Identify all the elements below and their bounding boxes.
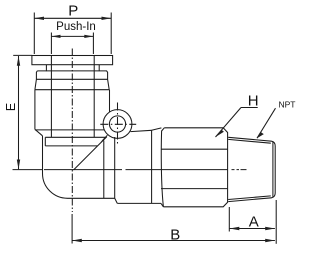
dimension A extension line right: [275, 200, 277, 244]
svg-text:Push-In: Push-In: [56, 21, 96, 33]
bottom edge (front): [68, 197, 115, 199]
dimension E arrow top: [17, 56, 20, 66]
corner silhouette edge rear: [114, 137, 116, 198]
svg-text:B: B: [170, 227, 180, 244]
dimension P arrow right: [102, 17, 112, 20]
H underline: [241, 107, 258, 109]
bore bottom left vertical: [44, 137, 46, 146]
lower body left edge: [42, 136, 44, 174]
corner facet left cap: [101, 140, 103, 143]
bottom-left fillet: [43, 174, 68, 199]
svg-text:NPT: NPT: [279, 99, 296, 109]
dimension B arrow right: [265, 239, 275, 242]
H leader arrow: [216, 130, 224, 137]
dimension E top extension line: [13, 54, 32, 56]
NPT thread bottom edge: [228, 198, 271, 202]
dimension P extension line right: [110, 13, 112, 55]
boss circle outer: [103, 110, 132, 139]
cartridge step line: [35, 129, 105, 131]
cap (top flange): [32, 56, 113, 65]
dimension B extension line left: [71, 214, 73, 244]
thread end chamfer line: [272, 142, 274, 197]
bore bottom line lower: [45, 145, 97, 147]
vertical centerline: [71, 49, 73, 213]
dimension E bottom extension line: [13, 169, 43, 171]
chamfer upper-left body: [35, 129, 43, 136]
NPT thread bottom minor line: [228, 196, 271, 200]
upper body top edge: [35, 89, 110, 91]
upper body right edge: [109, 90, 111, 113]
dimension Push-In arrow right: [84, 35, 93, 38]
NPT thread top edge: [228, 137, 271, 141]
horizontal centerline: [44, 169, 247, 171]
junction chamfer bottom: [161, 203, 163, 206]
svg-text:P: P: [68, 3, 78, 20]
release collet ring: [35, 71, 109, 90]
bore bottom line upper: [45, 136, 106, 138]
cap neck tick right: [98, 65, 100, 72]
bottom edge (rear): [117, 202, 161, 204]
horizontal cylinder top edge: [131, 130, 152, 131]
NPT thread top minor line: [228, 139, 271, 143]
thread end face outer: [272, 141, 276, 198]
H leader line: [216, 108, 242, 138]
bottom step: [115, 198, 118, 203]
hex face line lower: [161, 188, 228, 190]
hex face line upper: [161, 148, 228, 150]
hex junction face: [151, 130, 153, 203]
corner facet upper edge: [103, 135, 107, 140]
inner bore line left: [50, 56, 52, 138]
cap neck tick left: [45, 65, 47, 72]
NPT leader arrow: [257, 132, 264, 138]
svg-text:H: H: [248, 92, 259, 109]
dimension P arrow left: [34, 17, 44, 20]
NPT leader line: [257, 108, 276, 138]
dimension P line: [34, 17, 111, 19]
dimension A arrow left: [230, 227, 240, 230]
junction chamfer top: [152, 128, 162, 130]
dimension Push-In line: [51, 35, 93, 37]
svg-text:A: A: [249, 213, 259, 230]
collet ring mid line: [36, 78, 107, 80]
dimension A line: [230, 228, 275, 230]
dimension Push-In extension line left: [50, 33, 52, 55]
dimension B line: [72, 240, 275, 242]
hex nut H outline: [161, 128, 227, 207]
boss circle inner: [109, 116, 125, 132]
dimension P extension line left: [33, 13, 35, 55]
corner silhouette edge front: [103, 141, 105, 199]
dimension A arrow right: [265, 227, 275, 230]
dimension E arrow bottom: [17, 160, 20, 170]
boss circle vertical centerline: [117, 103, 119, 147]
corner facet lower edge: [101, 137, 107, 143]
inner bore line right: [93, 56, 95, 138]
boss circle horizontal centerline: [100, 123, 136, 125]
upper body left edge: [34, 90, 36, 130]
dimension A extension line left: [228, 207, 230, 232]
dimension E line: [18, 56, 20, 169]
svg-text:E: E: [4, 103, 18, 111]
dimension B arrow left: [72, 239, 82, 242]
dimension Push-In arrow left: [51, 35, 60, 38]
45 deg seam line: [74, 142, 102, 170]
dimension Push-In extension line right: [92, 33, 94, 55]
